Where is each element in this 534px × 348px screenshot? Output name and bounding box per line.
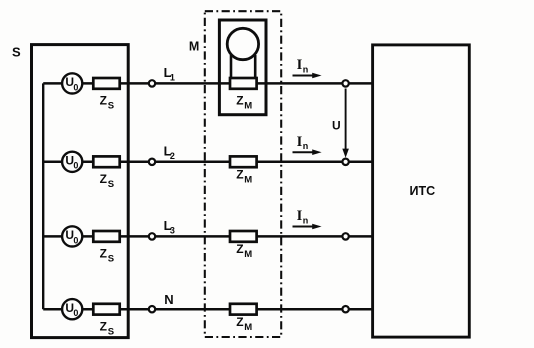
node L3 right terminal	[342, 233, 348, 239]
label L2	[164, 143, 175, 161]
svg-text:S: S	[108, 327, 114, 338]
resistor ZS neutral	[93, 304, 119, 338]
svg-text:N: N	[164, 292, 173, 307]
source box S	[32, 45, 129, 338]
svg-text:U: U	[332, 119, 341, 133]
resistor ZS phase L3	[93, 231, 119, 265]
meter coupling neck	[231, 55, 255, 79]
meter circle	[227, 28, 258, 59]
resistor ZM phase L1	[230, 78, 257, 112]
node L1 right terminal	[342, 80, 348, 86]
svg-text:2: 2	[170, 151, 175, 161]
voltage source U0 neutral	[62, 299, 82, 319]
svg-text:Z: Z	[236, 94, 243, 108]
svg-text:I: I	[297, 57, 303, 73]
current arrow In phase L3	[293, 208, 322, 229]
svg-text:M: M	[244, 175, 252, 186]
svg-text:M: M	[189, 40, 199, 54]
node L3 left terminal	[149, 233, 155, 239]
svg-text:Z: Z	[236, 167, 243, 181]
wire L1	[43, 82, 373, 85]
node L2 left terminal	[149, 159, 155, 165]
node N right terminal	[342, 306, 348, 312]
voltage arrow U	[332, 89, 349, 158]
node N left terminal	[149, 306, 155, 312]
svg-text:S: S	[108, 179, 114, 190]
resistor ZM neutral	[230, 304, 257, 333]
resistor ZS phase L2	[93, 156, 119, 190]
svg-text:Z: Z	[100, 319, 107, 333]
svg-text:n: n	[303, 64, 309, 74]
current arrow In phase L2	[293, 134, 322, 155]
svg-text:ИТС: ИТС	[410, 184, 436, 198]
wire neutral bus	[42, 83, 44, 309]
svg-text:Z: Z	[100, 247, 107, 261]
svg-text:n: n	[303, 141, 309, 151]
label L1	[164, 65, 175, 83]
current arrow In phase L1	[293, 57, 322, 78]
svg-text:Z: Z	[100, 172, 107, 186]
svg-text:M: M	[244, 101, 252, 112]
meter outline box	[219, 20, 266, 115]
svg-text:3: 3	[170, 225, 175, 235]
svg-text:Z: Z	[100, 94, 107, 108]
voltage source U0 phase L2	[62, 152, 82, 172]
voltage source U0 phase L1	[62, 73, 82, 93]
measuring equipment box M (dash-dot)	[205, 11, 281, 337]
label L3	[164, 218, 175, 236]
svg-text:S: S	[12, 44, 21, 59]
svg-text:1: 1	[170, 72, 175, 82]
node L2 right terminal	[342, 159, 348, 165]
svg-text:Z: Z	[236, 242, 243, 256]
svg-text:Z: Z	[236, 315, 243, 329]
svg-text:I: I	[297, 134, 303, 150]
voltage source U0 phase L3	[62, 226, 82, 246]
resistor ZM phase L3	[230, 231, 257, 260]
svg-text:0: 0	[73, 308, 78, 318]
wire N	[43, 308, 373, 311]
wire L2	[43, 161, 373, 164]
ITS box	[373, 45, 470, 337]
svg-text:M: M	[244, 322, 252, 333]
node L1 left terminal	[149, 80, 155, 86]
resistor ZS phase L1	[93, 78, 119, 112]
svg-text:M: M	[244, 249, 252, 260]
svg-text:0: 0	[73, 82, 78, 92]
svg-text:0: 0	[73, 161, 78, 171]
svg-text:0: 0	[73, 235, 78, 245]
svg-text:I: I	[297, 208, 303, 224]
svg-text:n: n	[303, 215, 309, 225]
wire L3	[43, 235, 373, 238]
svg-text:S: S	[108, 254, 114, 265]
resistor ZM phase L2	[230, 156, 257, 185]
svg-text:S: S	[108, 101, 114, 112]
